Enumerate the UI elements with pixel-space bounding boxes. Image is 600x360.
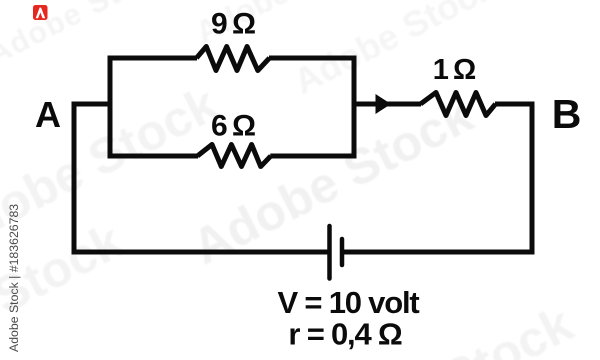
wire bottom right segment from battery: [342, 250, 535, 255]
resistor R2 6 ohm zigzag: [197, 145, 270, 167]
svg-text:Adobe Stock | #183626783: Adobe Stock | #183626783: [7, 204, 21, 352]
wire bottom branch right lead: [270, 154, 356, 159]
svg-text:V = 10 volt: V = 10 volt: [277, 285, 419, 320]
svg-text:r = 0,4 Ω: r = 0,4 Ω: [288, 317, 402, 352]
wire parallel box right bar: [352, 56, 357, 159]
svg-text:B: B: [552, 91, 582, 137]
svg-text:9 Ω: 9 Ω: [211, 8, 255, 41]
Adobe Stock logo red square: [33, 5, 48, 20]
svg-text:6 Ω: 6 Ω: [211, 110, 255, 143]
wire bottom left segment to battery: [72, 250, 330, 255]
resistor R1 9 ohm zigzag: [197, 47, 270, 71]
wire parallel box left bar: [108, 56, 113, 159]
watermark vertical id text "Adobe Stock | #183626783": [7, 204, 21, 352]
svg-text:1 Ω: 1 Ω: [433, 54, 476, 86]
node A junction wire: [74, 104, 112, 107]
wire top branch left lead: [108, 56, 198, 61]
wire from 1 ohm resistor to right leg: [495, 102, 535, 107]
battery V long plate: [330, 226, 343, 279]
resistor R3 1 ohm zigzag: [421, 93, 496, 116]
current arrow: [376, 94, 392, 114]
wire from box to 1 ohm resistor: [354, 102, 421, 107]
wire right leg down to bottom: [530, 102, 535, 255]
wire bottom branch left lead: [108, 154, 199, 159]
svg-text:A: A: [35, 94, 61, 135]
wire top branch right lead: [269, 56, 357, 61]
wire left leg from A down to bottom: [72, 102, 77, 255]
battery V short plate: [340, 239, 345, 265]
